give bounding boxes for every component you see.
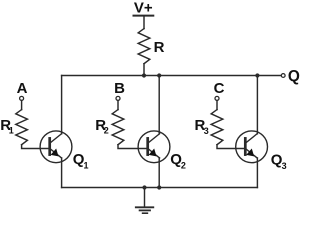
- input terminal A circle: [20, 96, 24, 100]
- label R1: [0, 117, 14, 136]
- svg-text:A: A: [17, 80, 28, 97]
- svg-text:1: 1: [9, 126, 14, 136]
- transistor Q1: [40, 131, 72, 163]
- wire Q2 collector to top rail: [158, 76, 160, 134]
- label B: [114, 80, 125, 97]
- label Q2: [170, 151, 186, 170]
- wire Q1 emitter to bottom rail: [61, 158, 63, 188]
- wire Q2 emitter to bottom rail: [158, 158, 160, 188]
- ground: [136, 207, 154, 213]
- transistor Q2: [138, 131, 170, 163]
- node junction Q3 collector / top rail: [255, 73, 259, 77]
- label R3: [195, 117, 209, 136]
- svg-text:Q: Q: [288, 68, 300, 85]
- wire R2 to Q2 base: [118, 145, 148, 149]
- node junction Q2 emitter / bottom rail: [157, 185, 161, 189]
- label V+: [134, 0, 153, 16]
- label C: [214, 80, 225, 97]
- resistor R2: [112, 110, 124, 145]
- wire Q1 collector to top rail: [61, 76, 63, 134]
- wire terminal C to resistor R3: [216, 101, 218, 110]
- svg-text:3: 3: [282, 161, 287, 171]
- label R2: [95, 117, 109, 136]
- wire bottom rail: [62, 187, 258, 189]
- wire R3 to Q3 base: [217, 145, 245, 149]
- resistor R3: [211, 110, 223, 145]
- svg-text:C: C: [214, 80, 225, 97]
- wire R1 to Q1 base: [22, 145, 50, 149]
- wire resistor R to top rail: [143, 64, 145, 76]
- label A: [17, 80, 28, 97]
- svg-text:2: 2: [104, 126, 109, 136]
- svg-text:B: B: [114, 80, 125, 97]
- resistor R: [138, 29, 150, 64]
- node junction R / top rail: [142, 73, 146, 77]
- label Q1: [73, 151, 89, 170]
- label Q output: [288, 68, 300, 85]
- svg-text:2: 2: [181, 161, 186, 171]
- wire bottom rail to ground: [144, 188, 146, 208]
- wire Q3 emitter to bottom rail: [256, 158, 258, 188]
- svg-text:R: R: [154, 39, 165, 56]
- wire Q3 collector to top rail: [256, 76, 258, 134]
- transistor Q3: [236, 131, 268, 163]
- input terminal C circle: [215, 96, 219, 100]
- svg-text:1: 1: [84, 160, 89, 170]
- resistor R1: [16, 110, 28, 145]
- svg-text:3: 3: [204, 126, 209, 136]
- svg-text:V+: V+: [134, 0, 153, 16]
- node junction ground / bottom rail: [142, 185, 146, 189]
- label Q3: [271, 151, 287, 170]
- node junction Q2 collector / top rail: [157, 73, 161, 77]
- input terminal B circle: [116, 96, 120, 100]
- power rail V+ bar: [134, 15, 154, 17]
- wire top rail: [62, 75, 282, 77]
- wire terminal A to resistor R1: [21, 101, 23, 110]
- wire terminal B to resistor R2: [117, 101, 119, 110]
- label R: [154, 39, 165, 56]
- wire V+ bar to resistor R: [143, 17, 145, 29]
- output terminal Q circle: [281, 74, 285, 78]
